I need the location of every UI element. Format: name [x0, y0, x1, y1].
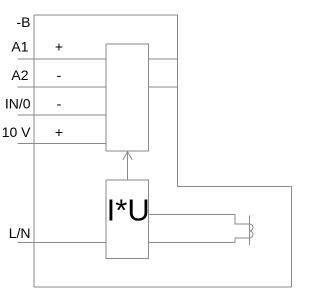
load core line [249, 216, 251, 246]
svg-text:+: + [55, 124, 63, 140]
wire load upper [149, 215, 250, 225]
svg-text:-B: -B [17, 14, 31, 30]
svg-text:A1: A1 [11, 39, 28, 55]
svg-text:10 V: 10 V [2, 124, 31, 140]
arrow from I*U block to upper block [127, 152, 129, 181]
wire A1 (left stub) [18, 58, 107, 60]
svg-text:I*U: I*U [107, 193, 150, 228]
svg-text:-: - [57, 67, 62, 83]
wire A2 to right border [149, 86, 178, 88]
svg-text:+: + [55, 39, 63, 55]
power stage block I*U [106, 180, 149, 259]
electronics block U1 (upper rectangle) [106, 44, 149, 151]
wire A2 (left stub) [18, 86, 107, 88]
load coil (two arcs) [250, 224, 254, 238]
wire A1 to right border [149, 58, 178, 60]
wire load lower [149, 238, 250, 243]
svg-text:IN/0: IN/0 [5, 96, 31, 112]
wire 10V (left stub) [18, 143, 107, 145]
svg-text:A2: A2 [11, 67, 28, 83]
svg-text:L/N: L/N [9, 225, 31, 241]
svg-text:-: - [57, 96, 62, 112]
wire L/N (left stub) [18, 242, 107, 244]
wire IN/0 (left stub) [18, 114, 107, 116]
outer device border [34, 15, 292, 287]
